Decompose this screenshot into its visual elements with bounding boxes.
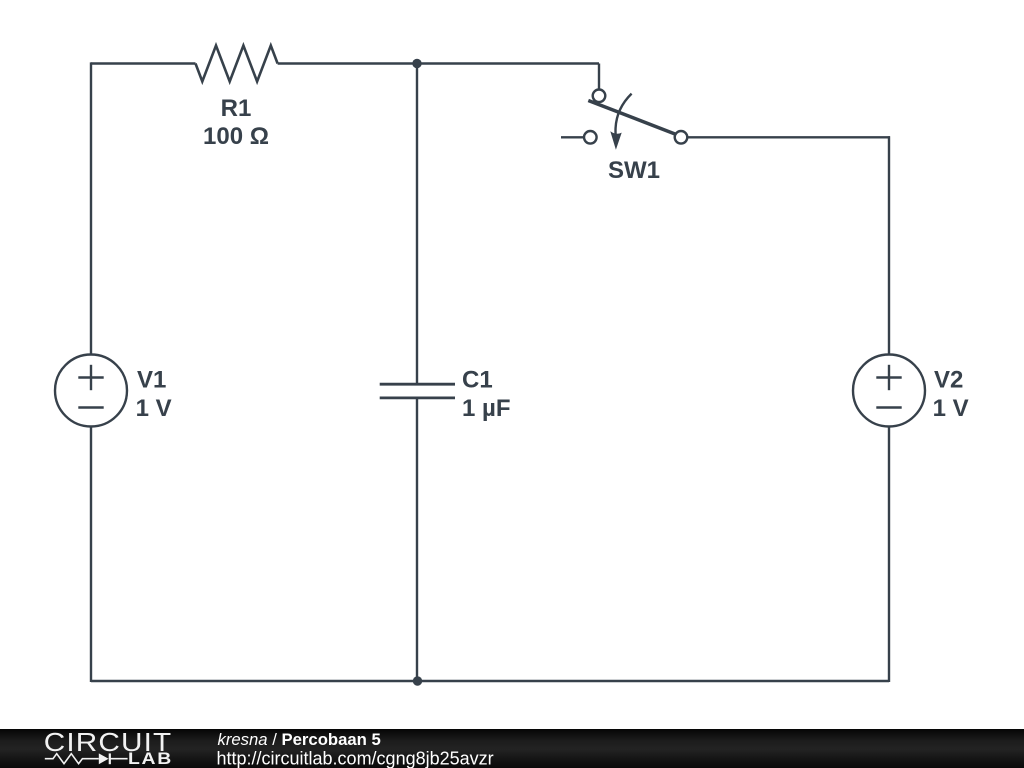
svg-text:http://circuitlab.com/cgng8jb2: http://circuitlab.com/cgng8jb25avzr bbox=[217, 749, 494, 768]
switch SW1 actuation arrow bbox=[616, 94, 632, 134]
node junction bottom bbox=[413, 676, 422, 685]
wire left rail lower bbox=[90, 427, 92, 683]
wire capacitor bottom lead bbox=[416, 398, 418, 681]
wire top-right horizontal bbox=[687, 136, 890, 138]
svg-text:SW1: SW1 bbox=[608, 157, 660, 184]
svg-text:V2: V2 bbox=[934, 367, 963, 394]
wire right rail upper bbox=[888, 136, 890, 354]
CircuitLab logo resistor-diode glyph bbox=[45, 754, 99, 764]
wire top-left horizontal bbox=[91, 62, 196, 64]
switch SW1 left throw terminal bbox=[584, 131, 597, 144]
wire switch left throw stub bbox=[561, 136, 584, 138]
wire left rail upper bbox=[90, 62, 92, 354]
wire switch top lead bbox=[598, 64, 600, 90]
svg-text:V1: V1 bbox=[137, 367, 166, 394]
switch SW1 common terminal bbox=[675, 131, 688, 144]
voltage source V2 bbox=[853, 355, 925, 427]
svg-text:kresna / Percobaan 5: kresna / Percobaan 5 bbox=[218, 730, 381, 749]
resistor R1 bbox=[196, 46, 278, 82]
svg-text:R1: R1 bbox=[221, 95, 252, 122]
switch SW1 top throw terminal bbox=[593, 90, 606, 103]
wire right rail lower bbox=[888, 427, 890, 683]
svg-text:C1: C1 bbox=[462, 367, 493, 394]
svg-text:100 Ω: 100 Ω bbox=[203, 123, 269, 150]
wire top middle horizontal bbox=[278, 62, 599, 64]
svg-text:1 V: 1 V bbox=[136, 395, 172, 422]
voltage source V1 bbox=[55, 355, 127, 427]
svg-text:LAB: LAB bbox=[128, 749, 173, 768]
svg-text:1 V: 1 V bbox=[933, 395, 969, 422]
wire capacitor top lead bbox=[416, 64, 418, 384]
footer bar bbox=[0, 729, 1024, 768]
capacitor C1 bbox=[380, 383, 455, 386]
wire bottom horizontal bbox=[91, 680, 889, 682]
switch SW1 blade bbox=[588, 101, 675, 135]
node junction top bbox=[412, 59, 421, 68]
svg-text:1 µF: 1 µF bbox=[462, 395, 511, 422]
